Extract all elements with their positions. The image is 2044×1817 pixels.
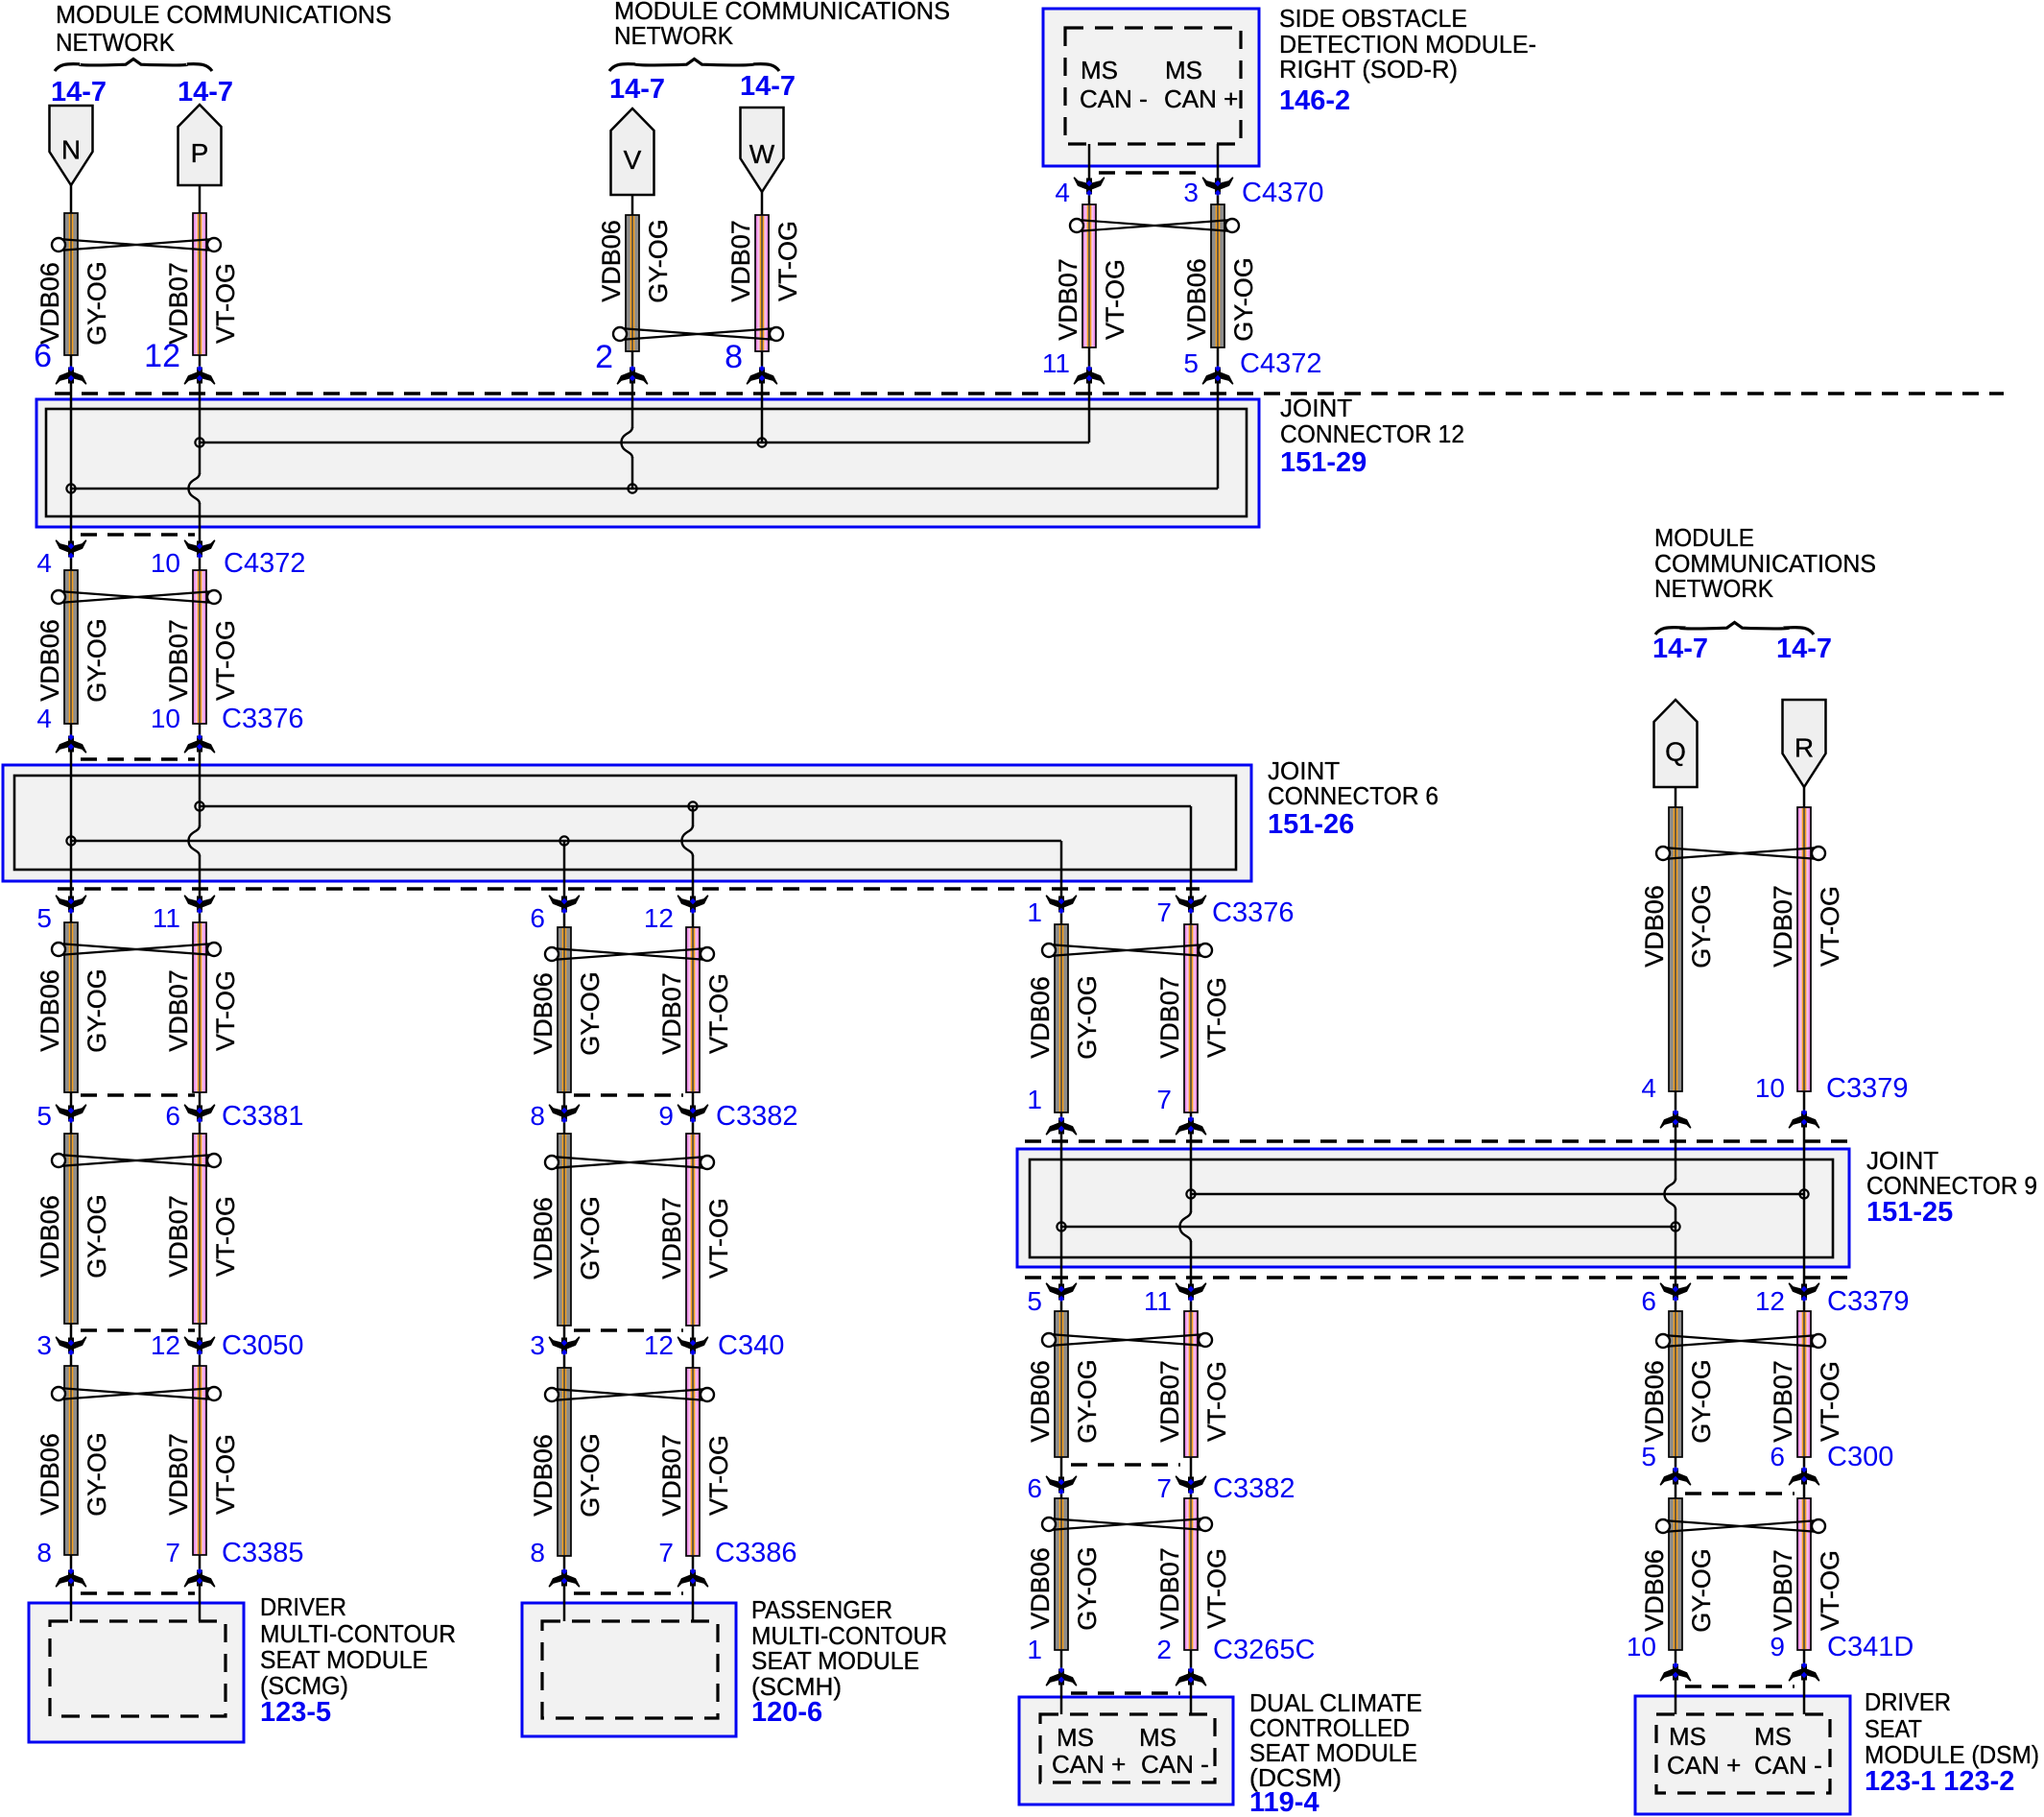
svg-text:C3382: C3382: [716, 1101, 797, 1132]
svg-text:GY-OG: GY-OG: [83, 1194, 111, 1279]
svg-text:C341D: C341D: [1827, 1632, 1913, 1662]
svg-text:VDB06: VDB06: [1026, 1547, 1055, 1630]
svg-text:DRIVER: DRIVER: [260, 1592, 346, 1621]
svg-text:VDB06: VDB06: [36, 619, 64, 702]
svg-text:GY-OG: GY-OG: [576, 971, 605, 1056]
svg-text:151-29: 151-29: [1280, 447, 1367, 478]
svg-text:CONNECTOR 12: CONNECTOR 12: [1280, 419, 1464, 448]
svg-text:11: 11: [1144, 1286, 1172, 1316]
svg-text:NETWORK: NETWORK: [56, 28, 176, 57]
svg-text:CAN -: CAN -: [1080, 84, 1148, 113]
svg-text:SEAT MODULE: SEAT MODULE: [751, 1646, 919, 1675]
svg-text:MS: MS: [1081, 56, 1118, 84]
svg-text:VDB07: VDB07: [726, 220, 755, 302]
svg-text:MODULE (DSM): MODULE (DSM): [1865, 1740, 2039, 1769]
svg-text:120-6: 120-6: [751, 1697, 822, 1728]
svg-text:VT-OG: VT-OG: [1816, 1550, 1844, 1631]
svg-text:MS: MS: [1139, 1723, 1176, 1752]
svg-text:151-25: 151-25: [1866, 1197, 1953, 1228]
svg-text:VDB07: VDB07: [1155, 1360, 1184, 1443]
svg-text:8: 8: [36, 1538, 52, 1567]
svg-text:DRIVER: DRIVER: [1865, 1687, 1951, 1716]
svg-text:11: 11: [1042, 348, 1070, 378]
svg-text:NETWORK: NETWORK: [614, 21, 734, 50]
svg-text:119-4: 119-4: [1249, 1787, 1319, 1817]
svg-text:GY-OG: GY-OG: [1687, 1359, 1716, 1444]
svg-text:SEAT MODULE: SEAT MODULE: [260, 1645, 428, 1674]
svg-text:W: W: [749, 139, 775, 169]
svg-text:SIDE OBSTACLE: SIDE OBSTACLE: [1279, 4, 1467, 33]
svg-text:10: 10: [1627, 1632, 1656, 1662]
svg-text:VDB07: VDB07: [164, 1195, 193, 1278]
svg-text:14-7: 14-7: [609, 74, 665, 105]
svg-text:VT-OG: VT-OG: [1202, 1361, 1231, 1442]
svg-text:7: 7: [658, 1538, 674, 1567]
svg-text:GY-OG: GY-OG: [1687, 884, 1716, 968]
svg-text:3: 3: [530, 1330, 545, 1360]
svg-text:VT-OG: VT-OG: [1202, 1548, 1231, 1629]
svg-text:VDB06: VDB06: [1640, 885, 1669, 968]
svg-text:5: 5: [36, 1101, 52, 1131]
svg-text:VDB06: VDB06: [597, 220, 626, 302]
svg-text:12: 12: [644, 903, 674, 933]
svg-text:VT-OG: VT-OG: [704, 1198, 733, 1279]
svg-text:CONNECTOR 9: CONNECTOR 9: [1866, 1171, 2037, 1200]
svg-text:Q: Q: [1665, 737, 1686, 767]
svg-text:VDB06: VDB06: [36, 969, 64, 1052]
svg-text:VT-OG: VT-OG: [704, 973, 733, 1054]
svg-text:GY-OG: GY-OG: [83, 1432, 111, 1517]
svg-text:N: N: [61, 135, 81, 165]
svg-text:6: 6: [165, 1101, 180, 1131]
svg-text:NETWORK: NETWORK: [1654, 574, 1774, 603]
svg-text:MS: MS: [1754, 1722, 1792, 1751]
svg-text:10: 10: [151, 548, 180, 578]
svg-text:1: 1: [1027, 897, 1042, 927]
svg-text:C4372: C4372: [224, 548, 305, 579]
svg-text:MS: MS: [1165, 56, 1202, 84]
svg-text:7: 7: [1156, 1085, 1172, 1114]
svg-text:SEAT: SEAT: [1865, 1714, 1922, 1743]
svg-text:5: 5: [36, 903, 52, 933]
svg-text:VDB06: VDB06: [36, 1433, 64, 1516]
svg-text:6: 6: [1770, 1442, 1785, 1471]
svg-text:3: 3: [1183, 178, 1199, 207]
svg-text:MS: MS: [1669, 1722, 1706, 1751]
svg-text:VDB07: VDB07: [164, 1433, 193, 1516]
svg-text:2: 2: [595, 339, 613, 375]
svg-text:V: V: [624, 145, 642, 175]
svg-text:VT-OG: VT-OG: [704, 1435, 733, 1516]
svg-text:2: 2: [1156, 1635, 1172, 1664]
svg-text:VDB06: VDB06: [529, 972, 558, 1055]
svg-text:7: 7: [1156, 1473, 1172, 1503]
svg-text:4: 4: [36, 704, 52, 733]
svg-text:GY-OG: GY-OG: [1229, 257, 1258, 342]
svg-text:5: 5: [1641, 1442, 1656, 1471]
svg-text:10: 10: [151, 704, 180, 733]
svg-text:VDB07: VDB07: [164, 262, 193, 345]
svg-text:C3386: C3386: [715, 1538, 796, 1568]
svg-text:MS: MS: [1057, 1723, 1094, 1752]
svg-text:14-7: 14-7: [740, 71, 796, 102]
svg-text:CONNECTOR 6: CONNECTOR 6: [1268, 781, 1438, 810]
svg-text:12: 12: [151, 1330, 180, 1360]
svg-text:C3265C: C3265C: [1213, 1635, 1315, 1665]
svg-text:6: 6: [530, 903, 545, 933]
svg-text:C3385: C3385: [222, 1538, 303, 1568]
svg-text:C4372: C4372: [1240, 348, 1321, 379]
svg-text:VT-OG: VT-OG: [211, 263, 240, 344]
svg-text:5: 5: [1027, 1286, 1042, 1316]
svg-text:R: R: [1794, 733, 1814, 763]
svg-text:9: 9: [1770, 1632, 1785, 1662]
svg-text:CAN -: CAN -: [1141, 1750, 1209, 1779]
svg-text:VDB06: VDB06: [1026, 976, 1055, 1059]
svg-text:VDB06: VDB06: [36, 1195, 64, 1278]
svg-text:10: 10: [1755, 1073, 1785, 1103]
svg-text:RIGHT (SOD-R): RIGHT (SOD-R): [1279, 55, 1458, 84]
svg-text:C3379: C3379: [1827, 1286, 1909, 1317]
svg-text:1: 1: [1027, 1085, 1042, 1114]
svg-text:5: 5: [1183, 348, 1199, 378]
svg-text:4: 4: [1055, 178, 1070, 207]
svg-text:VDB06: VDB06: [1640, 1549, 1669, 1632]
svg-text:VDB07: VDB07: [1769, 885, 1797, 968]
svg-text:C3376: C3376: [1212, 897, 1294, 928]
svg-text:VDB07: VDB07: [657, 1434, 686, 1517]
svg-text:1: 1: [1027, 1635, 1042, 1664]
svg-text:VDB07: VDB07: [1054, 258, 1082, 341]
svg-text:7: 7: [1156, 897, 1172, 927]
svg-text:VT-OG: VT-OG: [211, 620, 240, 701]
svg-text:GY-OG: GY-OG: [1073, 1359, 1102, 1444]
svg-text:VT-OG: VT-OG: [1202, 977, 1231, 1058]
svg-text:7: 7: [165, 1538, 180, 1567]
svg-text:4: 4: [36, 548, 52, 578]
svg-text:12: 12: [144, 338, 180, 374]
svg-text:14-7: 14-7: [1776, 634, 1832, 664]
svg-text:6: 6: [1641, 1286, 1656, 1316]
svg-text:VT-OG: VT-OG: [211, 1434, 240, 1515]
svg-text:8: 8: [530, 1538, 545, 1567]
svg-text:MODULE: MODULE: [1654, 523, 1754, 552]
svg-text:VDB07: VDB07: [164, 619, 193, 702]
svg-text:VDB07: VDB07: [1155, 1547, 1184, 1630]
svg-text:GY-OG: GY-OG: [644, 219, 673, 303]
svg-text:9: 9: [658, 1101, 674, 1131]
svg-text:C340: C340: [718, 1330, 784, 1361]
svg-text:C4370: C4370: [1242, 178, 1323, 208]
svg-text:VDB06: VDB06: [1640, 1360, 1669, 1443]
svg-text:CAN +: CAN +: [1667, 1751, 1741, 1780]
svg-text:GY-OG: GY-OG: [1073, 975, 1102, 1060]
svg-text:VDB07: VDB07: [657, 972, 686, 1055]
svg-text:6: 6: [1027, 1473, 1042, 1503]
svg-text:C3381: C3381: [222, 1101, 303, 1132]
svg-text:VDB07: VDB07: [1155, 976, 1184, 1059]
svg-text:VDB07: VDB07: [657, 1197, 686, 1279]
svg-text:VT-OG: VT-OG: [773, 221, 802, 301]
svg-text:VT-OG: VT-OG: [211, 1196, 240, 1277]
svg-text:6: 6: [34, 338, 52, 374]
svg-text:12: 12: [1755, 1286, 1785, 1316]
svg-text:146-2: 146-2: [1279, 85, 1350, 116]
svg-text:VDB06: VDB06: [1026, 1360, 1055, 1443]
svg-text:MODULE COMMUNICATIONS: MODULE COMMUNICATIONS: [56, 0, 392, 29]
svg-text:CAN -: CAN -: [1754, 1751, 1822, 1780]
svg-text:GY-OG: GY-OG: [83, 968, 111, 1053]
svg-text:C3379: C3379: [1826, 1073, 1908, 1104]
svg-text:GY-OG: GY-OG: [83, 261, 111, 346]
svg-text:VT-OG: VT-OG: [1816, 886, 1844, 967]
svg-text:VDB07: VDB07: [1769, 1360, 1797, 1443]
svg-text:14-7: 14-7: [178, 77, 233, 108]
svg-text:8: 8: [530, 1101, 545, 1131]
svg-text:VDB06: VDB06: [1182, 258, 1211, 341]
svg-text:4: 4: [1641, 1073, 1656, 1103]
svg-text:VDB07: VDB07: [1769, 1549, 1797, 1632]
svg-text:VDB06: VDB06: [529, 1434, 558, 1517]
svg-text:151-26: 151-26: [1268, 809, 1354, 840]
svg-text:GY-OG: GY-OG: [83, 618, 111, 703]
svg-text:CAN +: CAN +: [1164, 84, 1238, 113]
svg-text:GY-OG: GY-OG: [1687, 1548, 1716, 1633]
svg-text:VT-OG: VT-OG: [211, 970, 240, 1051]
svg-text:P: P: [191, 138, 209, 168]
svg-text:123-5: 123-5: [260, 1697, 331, 1728]
svg-text:123-1 123-2: 123-1 123-2: [1865, 1766, 2014, 1797]
svg-text:MULTI-CONTOUR: MULTI-CONTOUR: [260, 1619, 456, 1648]
svg-text:VT-OG: VT-OG: [1816, 1361, 1844, 1442]
svg-text:14-7: 14-7: [1652, 634, 1708, 664]
svg-text:VDB06: VDB06: [36, 262, 64, 345]
svg-text:8: 8: [725, 339, 743, 375]
svg-text:VDB06: VDB06: [529, 1197, 558, 1279]
svg-text:C300: C300: [1827, 1442, 1893, 1472]
svg-text:C3050: C3050: [222, 1330, 303, 1361]
svg-text:C3382: C3382: [1213, 1473, 1295, 1504]
svg-text:11: 11: [153, 903, 180, 933]
svg-text:VDB07: VDB07: [164, 969, 193, 1052]
svg-text:C3376: C3376: [222, 704, 303, 734]
svg-text:3: 3: [36, 1330, 52, 1360]
svg-text:12: 12: [644, 1330, 674, 1360]
svg-text:VT-OG: VT-OG: [1101, 259, 1129, 340]
svg-text:CAN +: CAN +: [1052, 1750, 1126, 1779]
svg-text:GY-OG: GY-OG: [1073, 1546, 1102, 1631]
svg-text:(SCMG): (SCMG): [260, 1671, 348, 1700]
svg-text:GY-OG: GY-OG: [576, 1196, 605, 1280]
svg-text:14-7: 14-7: [51, 77, 107, 108]
svg-text:GY-OG: GY-OG: [576, 1433, 605, 1518]
svg-text:JOINT: JOINT: [1280, 394, 1352, 422]
svg-text:PASSENGER: PASSENGER: [751, 1595, 892, 1624]
